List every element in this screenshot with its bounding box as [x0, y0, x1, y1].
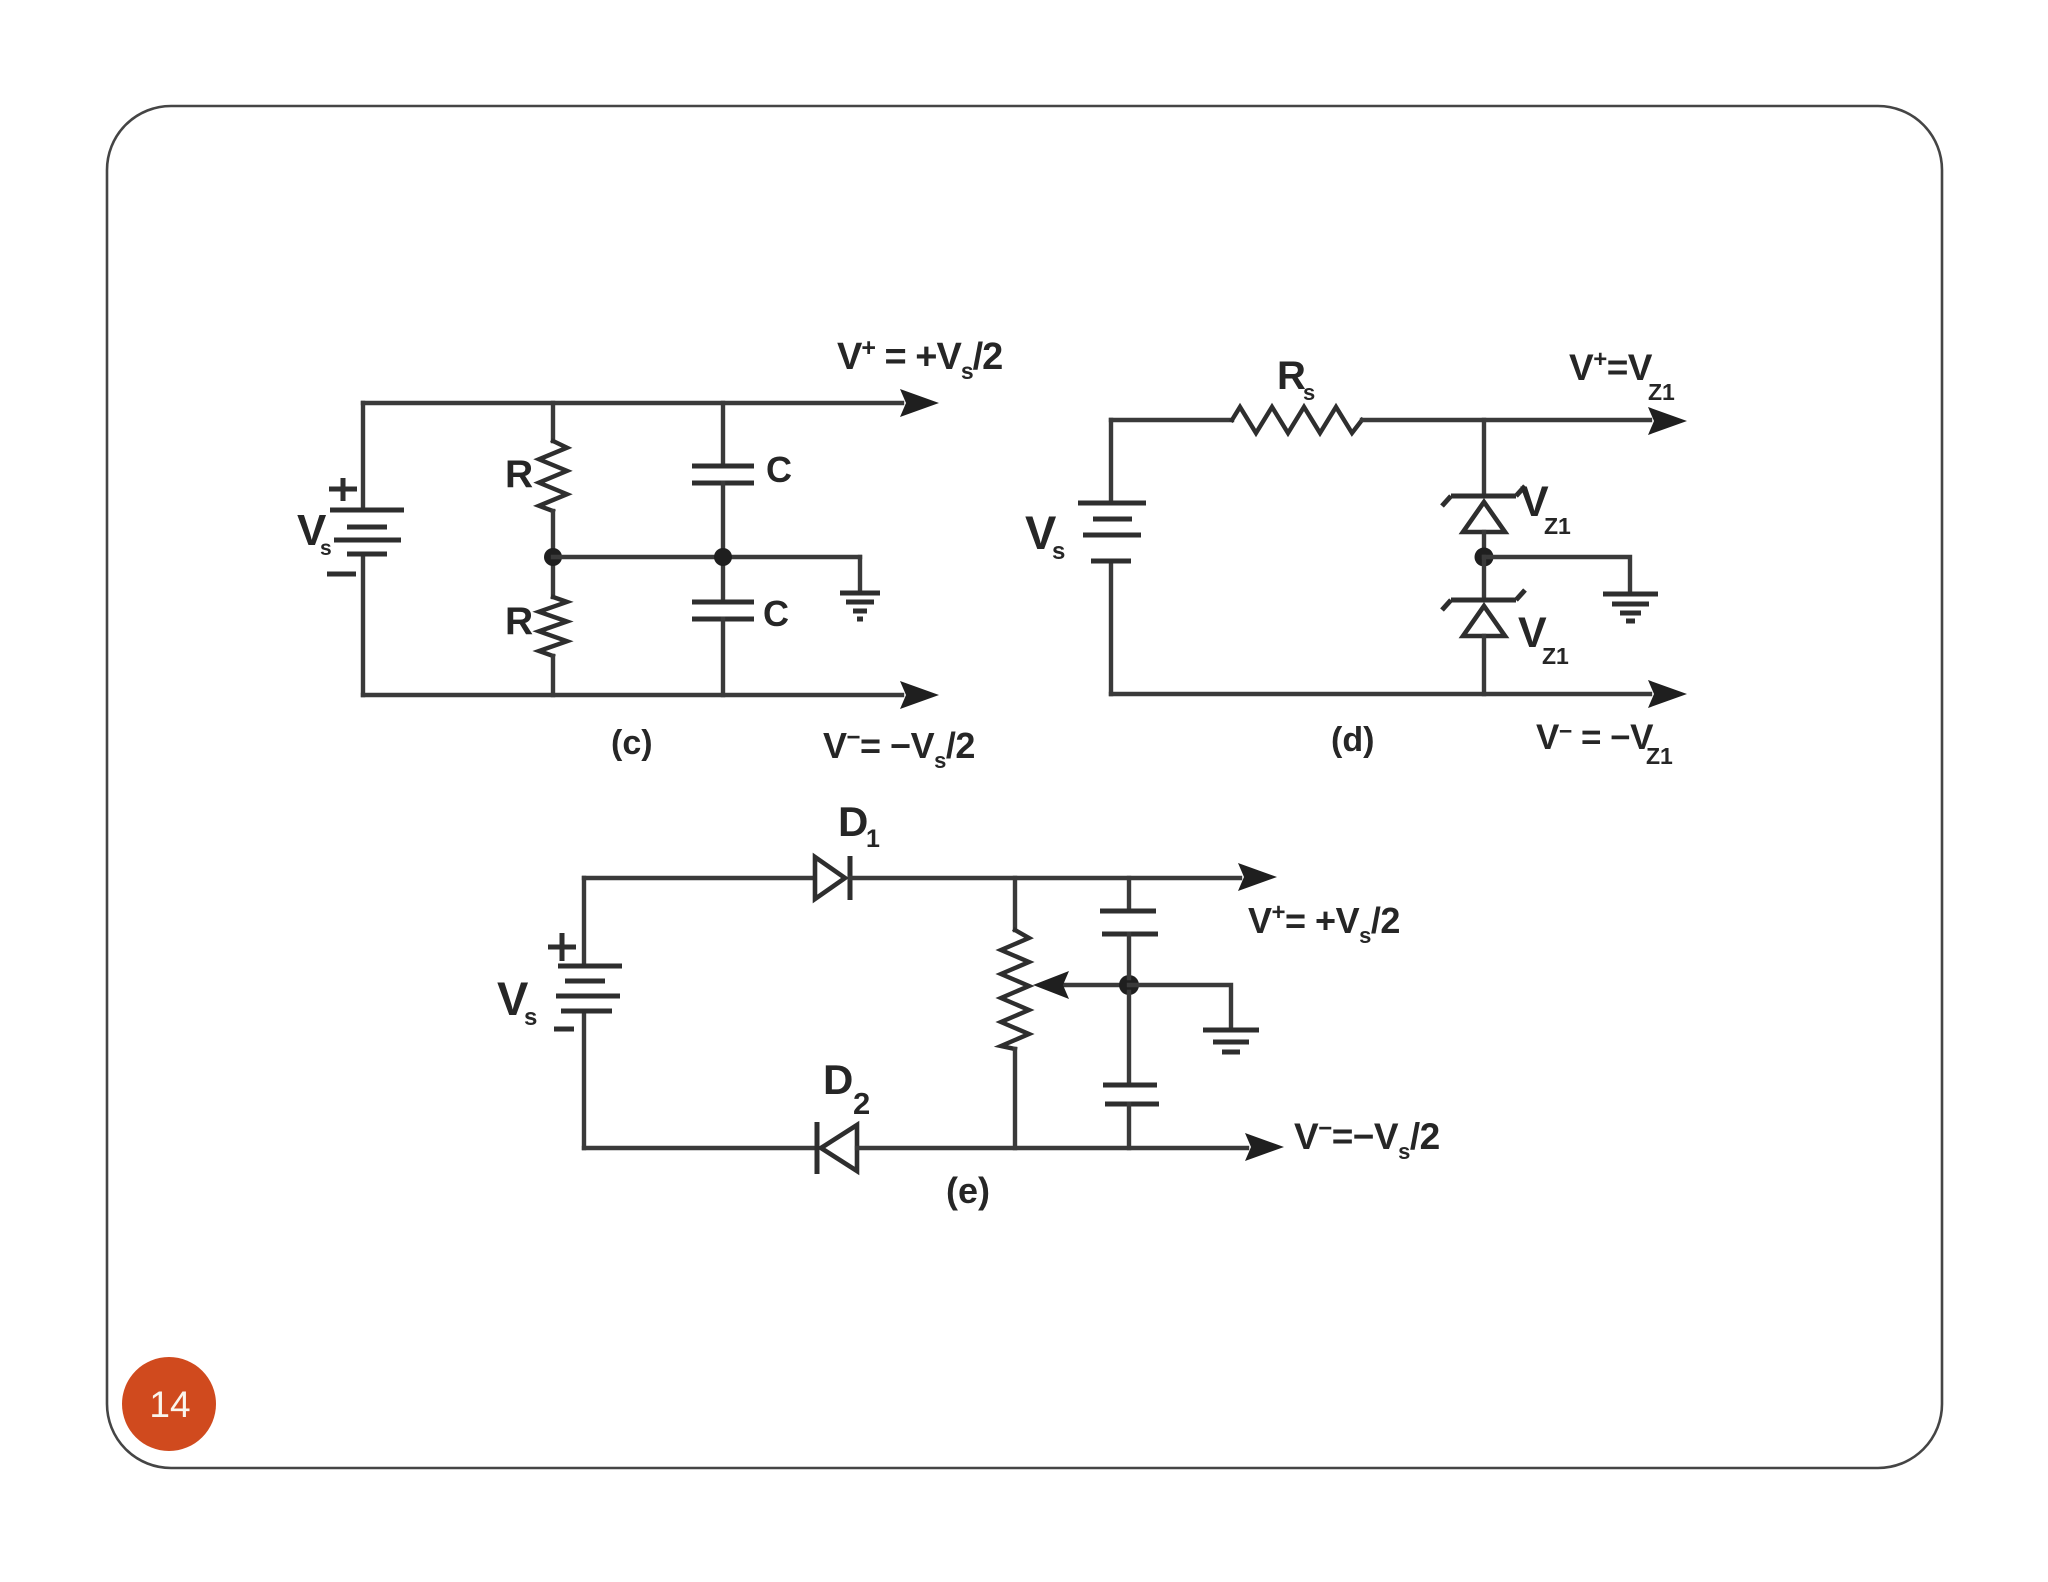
battery - terminal (e): [554, 1027, 574, 1032]
label R lower (c): [505, 600, 533, 643]
label V+ = +Vs/2 (e): [1248, 899, 1400, 948]
label Vz1 upper (d): [1520, 478, 1571, 539]
caption (c): [611, 724, 653, 762]
label V- = -Vs/2 (c): [823, 724, 975, 773]
label V+ = +Vs/2 (c): [837, 334, 1002, 384]
svg-text:R: R: [505, 453, 533, 496]
svg-text:Z1: Z1: [1544, 513, 1571, 539]
wire: (e) junction to ground: [1129, 985, 1231, 1026]
caption (e): [946, 1170, 990, 1211]
svg-text:V+=V: V+=V: [1569, 346, 1653, 388]
svg-text:C: C: [766, 449, 792, 490]
label R upper (c): [505, 453, 533, 496]
wire: (c) left vertical from battery: [361, 403, 365, 695]
battery Vs (e): [556, 966, 622, 1011]
node: junction dot wiper/caps/ground (e): [1119, 975, 1139, 995]
label V (battery c): [297, 506, 332, 560]
battery - terminal (c): [327, 572, 356, 577]
ground (d): [1603, 594, 1658, 621]
svg-text:D: D: [838, 798, 868, 845]
svg-text:s: s: [524, 1004, 537, 1031]
wire: (e) bottom rail right: [857, 1146, 1247, 1150]
node: junction dot at capacitor midpoint (c): [714, 548, 732, 566]
ground (c): [840, 557, 880, 619]
label Vs (battery e): [497, 972, 537, 1031]
capacitor C upper (c): [692, 403, 754, 548]
svg-text:Z1: Z1: [1542, 643, 1569, 669]
label Vz1 lower (d): [1518, 609, 1569, 669]
wire: (d) bottom rail: [1111, 692, 1650, 696]
resistor Rs (d): [1232, 407, 1362, 433]
svg-text:2: 2: [853, 1086, 870, 1121]
wire: (d) left vertical with battery: [1109, 420, 1113, 694]
battery Vs (c): [330, 510, 404, 554]
node: junction dot between zeners (d): [1475, 548, 1494, 567]
potentiometer wiper arrow (e): [1033, 971, 1129, 999]
svg-text:1: 1: [866, 825, 880, 853]
potentiometer (e): [1001, 878, 1029, 1148]
battery + terminal (e): [548, 933, 576, 961]
svg-text:C: C: [763, 593, 789, 634]
label V- = -Vs/2 (e): [1294, 1115, 1440, 1164]
svg-text:s: s: [1052, 538, 1065, 565]
output arrow V- (d): [1648, 680, 1687, 708]
svg-text:s: s: [320, 537, 332, 560]
output arrow V- (e): [1245, 1133, 1284, 1161]
label D2 (e): [823, 1056, 870, 1121]
ground (e): [1203, 1030, 1259, 1052]
svg-text:D: D: [823, 1056, 853, 1103]
node: junction dot at resistor midpoint (c): [544, 548, 562, 566]
svg-text:14: 14: [149, 1384, 190, 1425]
output arrow V- (c): [900, 681, 939, 709]
diode D2 (e): [817, 1122, 857, 1174]
svg-text:Z1: Z1: [1648, 379, 1675, 405]
wire: (c) top rail V+: [363, 401, 902, 405]
capacitor C lower (c): [692, 566, 754, 695]
svg-text:V−=−Vs/2: V−=−Vs/2: [1294, 1115, 1440, 1164]
diode D1 (e): [815, 856, 850, 900]
label V- = -Vz1 (d): [1536, 718, 1673, 769]
label D1 (e): [838, 798, 880, 853]
wire: (d) zener branch top: [1482, 420, 1486, 496]
svg-text:V+= +Vs/2: V+= +Vs/2: [1248, 899, 1400, 948]
output arrow V+ (c): [900, 389, 939, 417]
label V+ = Vz1 (d): [1569, 346, 1675, 405]
resistor R lower (c): [539, 566, 567, 695]
wire: (c) midpoint horizontal to ground: [553, 555, 860, 559]
zener diode Vz1 lower (d): [1442, 590, 1525, 694]
wire: (e) left vertical with battery: [582, 878, 586, 1148]
svg-text:(c): (c): [611, 724, 653, 762]
svg-text:Z1: Z1: [1646, 743, 1673, 769]
label C upper (c): [766, 449, 792, 490]
svg-text:R: R: [505, 600, 533, 643]
svg-text:V−= −Vs/2: V−= −Vs/2: [823, 724, 975, 773]
wire: (d) junction to ground: [1484, 557, 1630, 591]
svg-text:R: R: [1277, 354, 1306, 398]
capacitor lower (e): [1103, 992, 1159, 1148]
label Vs (battery d): [1025, 506, 1065, 565]
wire: (d) between junction and lower zener: [1482, 557, 1486, 600]
svg-text:(d): (d): [1331, 721, 1374, 759]
caption (d): [1331, 721, 1374, 759]
wire: (e) top rail right: [850, 876, 1240, 880]
svg-text:(e): (e): [946, 1170, 990, 1211]
page number badge 14: [122, 1357, 216, 1451]
wire: (e) top rail left: [584, 876, 813, 880]
wire: (e) bottom rail left: [584, 1146, 817, 1150]
capacitor upper (e): [1100, 878, 1158, 978]
output arrow V+ (e): [1238, 863, 1277, 891]
label Rs (d): [1277, 354, 1315, 405]
wire: (d) top rail from resistor to output: [1362, 418, 1650, 422]
battery + terminal (c): [329, 478, 357, 501]
output arrow V+ (d): [1648, 407, 1687, 435]
svg-text:V− = −V: V− = −V: [1536, 718, 1654, 757]
svg-text:s: s: [1303, 380, 1315, 405]
label C lower (c): [763, 593, 789, 634]
zener diode Vz1 upper (d): [1442, 486, 1525, 550]
battery Vs (d): [1078, 503, 1146, 561]
wire: (d) top rail to resistor: [1111, 418, 1232, 422]
wire: (c) bottom rail V-: [363, 693, 902, 697]
resistor R upper (c): [539, 403, 567, 548]
